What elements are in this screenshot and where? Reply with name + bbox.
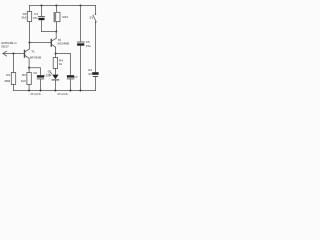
resistor R4 [54,54,56,58]
svg-text:BZ1: BZ1 [63,15,69,19]
wire top rail [30,5,96,7]
svg-text:9V: 9V [88,72,92,76]
wire R2 to T1 collector [29,22,31,49]
wire T1 emitter down [28,58,30,67]
svg-text:2k2: 2k2 [21,16,26,20]
wire bottom rail [14,90,96,92]
node bottom LED [54,89,56,91]
svg-text:1k0: 1k0 [21,79,26,83]
node bottom R3 [28,89,30,91]
svg-text:10u: 10u [86,44,91,48]
node top rail C5 [79,4,81,6]
wire right rail upper [95,6,97,15]
capacitor C4 [41,6,43,17]
battery B1 [92,72,98,75]
wire T2 collector up [55,32,57,39]
svg-text:C7: C7 [74,75,78,79]
LED arrows [50,72,52,74]
capacitor C5 [80,6,82,42]
LED D1 [52,75,58,80]
node base junction [12,52,14,54]
wire T1 base input [3,53,24,55]
capacitor C6 [37,75,44,77]
wire T2 emitter down [55,47,57,53]
resistor R1 [11,73,15,85]
node C4 T2 junction [55,30,57,32]
svg-text:R3: R3 [22,73,26,77]
wire R1 to bottom rail [13,85,15,91]
transistor T2 [50,39,52,46]
svg-text:T1: T1 [31,50,35,54]
resistor R3 [28,68,30,73]
svg-text:47u/16: 47u/16 [57,92,68,96]
input arrow [3,51,7,56]
resistor R2 [29,6,31,12]
node bottom C5 [79,89,81,91]
transistor T1 [24,50,26,57]
svg-text:GB17: GB17 [1,44,9,48]
node emitter T2 junction [55,52,57,54]
svg-text:R1: R1 [6,73,10,77]
svg-text:2M2: 2M2 [4,79,10,83]
wire C4 to collector node [42,31,57,33]
node bottom C7 [69,89,71,91]
node top rail piezo [55,4,57,6]
node top rail C4 [40,4,42,6]
svg-text:C6: C6 [33,71,37,75]
svg-text:BF245B: BF245B [30,56,42,60]
node collector junction [28,41,30,43]
wire right rail mid [95,22,97,72]
svg-text:47n: 47n [33,16,38,20]
svg-text:S1: S1 [90,16,94,20]
svg-text:LED: LED [44,74,51,78]
wire input node to R1 [13,54,15,73]
svg-text:1k: 1k [59,62,63,66]
switch S1 [93,15,96,22]
switch S1 contact blobs [95,14,96,15]
node emitter junction [28,67,30,69]
wire right rail lower [95,77,97,91]
wire emitter node to C6 [29,68,40,75]
svg-text:47u/16: 47u/16 [30,92,41,96]
wire emitter node to C7 [56,54,71,75]
wire R4 to LED [54,69,56,75]
svg-text:BC548B: BC548B [58,42,70,46]
wire T2 base [30,42,52,44]
capacitor C7 [67,75,74,77]
buzzer BZ1 piezo [55,6,57,13]
node bottom C6 [39,89,41,91]
